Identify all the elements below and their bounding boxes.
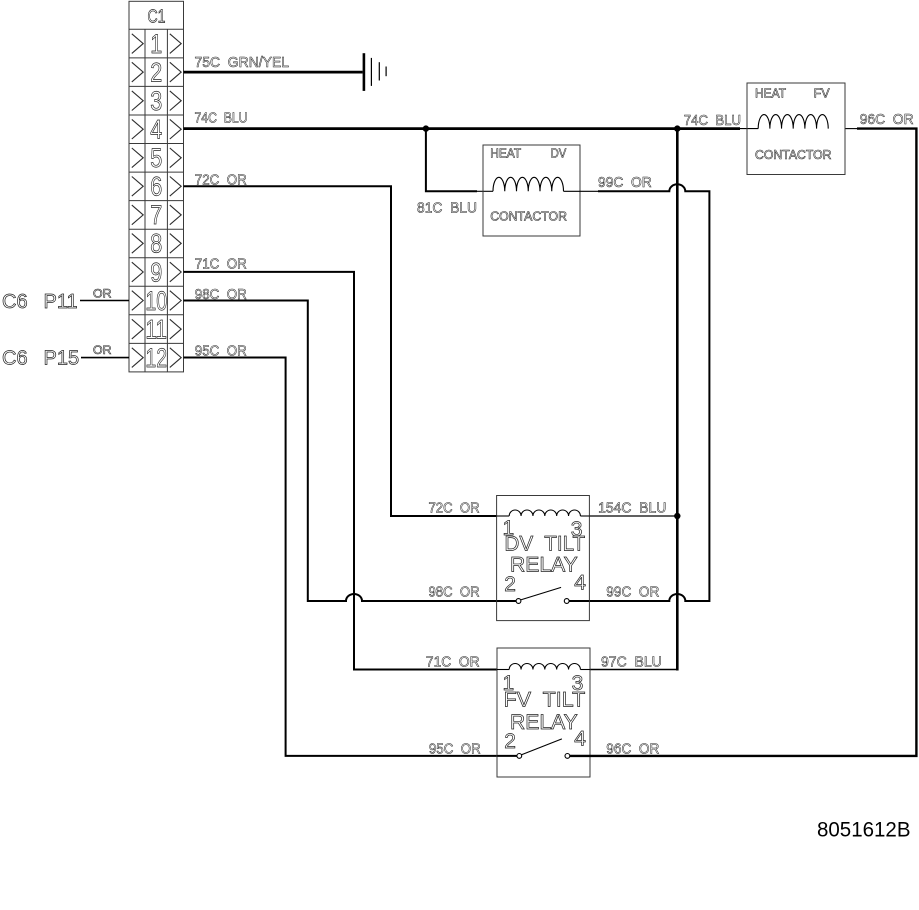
svg-text:HEAT: HEAT	[490, 147, 521, 161]
svg-text:C6: C6	[2, 347, 28, 369]
wire 74C BLU vertical drop (to relay coils)	[676, 127, 679, 670]
relay DV TILT coil	[509, 510, 580, 516]
relay FV TILT box	[497, 648, 590, 777]
svg-text:72C OR: 72C OR	[429, 499, 480, 516]
svg-text:98C OR: 98C OR	[195, 286, 247, 303]
svg-text:12: 12	[145, 343, 167, 373]
pin 1 chevrons	[132, 34, 181, 54]
svg-text:1: 1	[150, 29, 162, 59]
svg-text:75C GRN/YEL: 75C GRN/YEL	[195, 54, 290, 71]
svg-text:71C OR: 71C OR	[195, 255, 247, 272]
svg-text:95C OR: 95C OR	[195, 343, 247, 360]
svg-text:DV TILT: DV TILT	[504, 532, 585, 555]
pin 10 chevrons	[132, 291, 181, 311]
pin 2 chevrons	[132, 62, 181, 82]
junction dot at 74C vertical	[674, 125, 680, 131]
pin 7 chevrons	[132, 205, 181, 225]
relay DV TILT box	[497, 496, 590, 621]
svg-text:RELAY: RELAY	[510, 553, 578, 576]
svg-text:P11: P11	[44, 291, 78, 313]
svg-text:2: 2	[150, 57, 162, 87]
wire 97C BLU (to FV TILT RELAY coil)	[590, 669, 677, 671]
svg-text:74C BLU: 74C BLU	[195, 110, 248, 127]
pin 12 chevrons	[132, 348, 181, 368]
pin 6 chevrons	[132, 177, 181, 197]
pin 9 chevrons	[132, 262, 181, 282]
pin 3 chevrons	[132, 91, 181, 111]
pin 4 chevrons	[132, 119, 181, 139]
svg-text:154C BLU: 154C BLU	[598, 499, 666, 516]
pin 8 chevrons	[132, 234, 181, 254]
svg-text:96C OR: 96C OR	[606, 740, 659, 757]
svg-text:74C BLU: 74C BLU	[684, 112, 741, 129]
svg-text:4: 4	[150, 115, 162, 145]
svg-text:3: 3	[150, 86, 162, 116]
junction dot at 154C BLU	[674, 513, 680, 519]
svg-text:RELAY: RELAY	[510, 711, 578, 734]
pin 11 chevrons	[132, 319, 181, 339]
svg-text:99C OR: 99C OR	[606, 584, 659, 601]
contactor HEAT FV box	[747, 83, 845, 175]
svg-text:OR: OR	[93, 288, 112, 300]
svg-text:OR: OR	[93, 345, 112, 357]
svg-text:97C BLU: 97C BLU	[601, 654, 662, 671]
relay FV switch	[497, 739, 590, 758]
svg-text:95C OR: 95C OR	[429, 740, 481, 757]
svg-text:96C OR: 96C OR	[860, 111, 914, 128]
junction dot at 74C/81C	[423, 125, 429, 131]
svg-text:98C OR: 98C OR	[429, 584, 480, 601]
wire 74C BLU (pin 4, horizontal bus)	[184, 127, 741, 130]
svg-text:6: 6	[150, 172, 162, 202]
svg-text:11: 11	[145, 314, 167, 344]
relay FV TILT coil	[509, 663, 580, 669]
pin 5 chevrons	[132, 148, 181, 168]
svg-text:FV: FV	[814, 87, 831, 101]
svg-text:C1: C1	[148, 5, 166, 26]
wire 98C OR (pin 10 to DV relay pin 2, hump over 71C)	[184, 301, 517, 602]
svg-text:7: 7	[150, 200, 162, 230]
ground	[364, 53, 386, 91]
svg-text:C6: C6	[2, 291, 28, 313]
contactor HEAT DV coil	[493, 177, 564, 191]
svg-text:71C OR: 71C OR	[426, 654, 480, 671]
svg-text:81C BLU: 81C BLU	[417, 200, 477, 217]
svg-text:DV: DV	[551, 147, 567, 161]
svg-text:99C OR: 99C OR	[598, 174, 652, 191]
svg-text:HEAT: HEAT	[755, 87, 786, 101]
svg-text:72C OR: 72C OR	[195, 171, 247, 188]
connector C1	[129, 1, 184, 372]
wire 71C OR (pin 9 to FV relay coil)	[184, 272, 498, 670]
svg-text:CONTACTOR: CONTACTOR	[490, 210, 567, 224]
wire 99C OR (HEAT DV to DV TILT RELAY pin 4, with crossover humps)	[569, 184, 709, 601]
wire 72C OR (pin 6 to DV relay coil)	[184, 186, 497, 516]
wire 75C GRN/YEL (pin 2 to ground)	[184, 71, 363, 74]
wire 154C BLU (DV relay coil to 74C vertical)	[589, 515, 677, 517]
contactor HEAT DV box	[483, 145, 580, 236]
svg-text:8051612B: 8051612B	[817, 817, 911, 841]
svg-text:8: 8	[150, 229, 162, 259]
relay DV switch	[497, 587, 590, 603]
svg-text:CONTACTOR: CONTACTOR	[755, 148, 832, 162]
contactor HEAT FV coil	[758, 115, 828, 129]
svg-text:2: 2	[504, 573, 516, 596]
svg-text:9: 9	[150, 257, 162, 287]
wire 95C OR (pin 12 to FV relay pin 2)	[184, 358, 517, 756]
wire 81C BLU (drop to HEAT DV contactor)	[426, 129, 477, 192]
wire 96C OR (FV relay pin 4 to right edge, up to HEAT FV)	[570, 129, 917, 756]
svg-text:10: 10	[145, 286, 167, 316]
svg-text:5: 5	[150, 143, 162, 173]
svg-text:P15: P15	[44, 347, 80, 369]
svg-text:FV TILT: FV TILT	[504, 689, 586, 712]
